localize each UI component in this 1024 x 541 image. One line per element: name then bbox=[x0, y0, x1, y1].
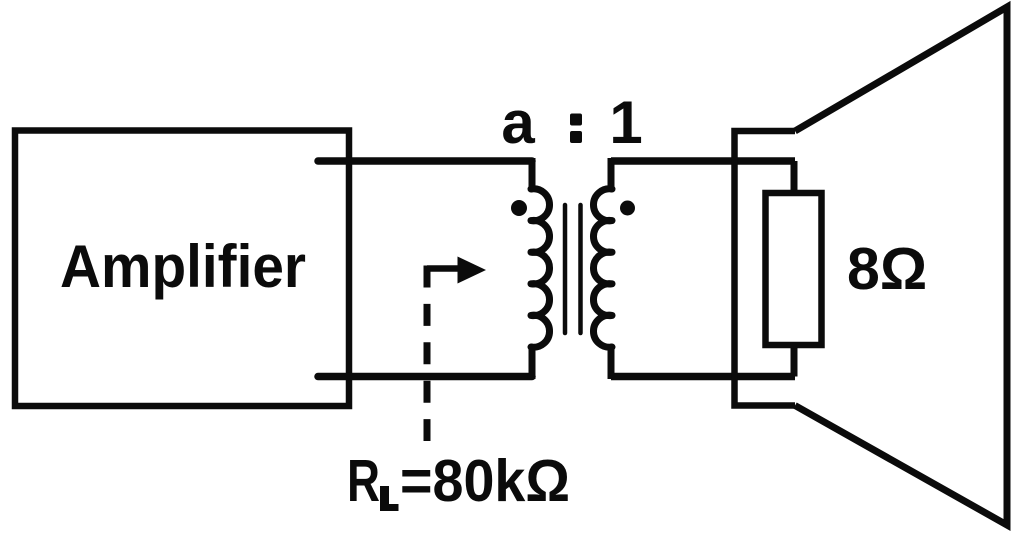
svg-text:a: a bbox=[501, 89, 535, 156]
core line 2 bbox=[578, 205, 583, 333]
secondary phase dot bbox=[620, 201, 635, 216]
amplifier box U1 bbox=[15, 131, 349, 407]
wire secondary bottom bbox=[611, 373, 795, 381]
wire primary bottom bbox=[318, 373, 532, 381]
svg-text:R: R bbox=[347, 448, 380, 514]
primary phase dot bbox=[511, 200, 527, 216]
transformer primary winding L1 bbox=[531, 158, 550, 379]
arrow into primary bbox=[427, 265, 463, 272]
resistor lead top bbox=[791, 161, 798, 193]
resistor lead bottom bbox=[791, 345, 798, 377]
svg-text:=80kΩ: =80kΩ bbox=[400, 448, 570, 514]
svg-text:1: 1 bbox=[609, 89, 642, 156]
speaker body bbox=[735, 131, 796, 406]
wire primary top bbox=[318, 157, 532, 165]
core line 1 bbox=[563, 205, 568, 333]
wire secondary top bbox=[611, 157, 795, 165]
svg-text:8Ω: 8Ω bbox=[847, 236, 927, 302]
transformer secondary winding L2 bbox=[593, 158, 612, 379]
svg-text:Amplifier: Amplifier bbox=[60, 233, 306, 300]
dashed line RL bbox=[424, 266, 431, 442]
resistor R (8 ohm) bbox=[766, 193, 822, 345]
speaker cone bbox=[795, 7, 1007, 525]
